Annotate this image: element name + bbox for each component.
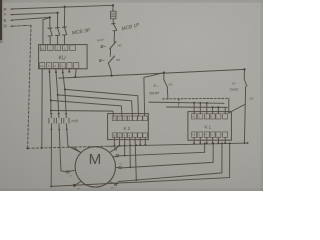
svg-text:A2: A2: [40, 64, 44, 68]
svg-text:B: B: [4, 18, 7, 23]
svg-text:R: R: [4, 7, 7, 12]
svg-text:N: N: [4, 24, 7, 29]
svg-text:K 2: K 2: [124, 126, 131, 131]
svg-text:A1: A1: [41, 46, 45, 50]
svg-text:KU: KU: [59, 56, 66, 62]
svg-text:TOR.: TOR.: [71, 119, 80, 124]
svg-text:E–: E–: [99, 58, 105, 63]
svg-text:M: M: [89, 151, 102, 168]
svg-text:E–: E–: [233, 82, 237, 86]
svg-text:E–: E–: [101, 44, 107, 49]
svg-text:Y: Y: [4, 12, 7, 17]
svg-text:K 1: K 1: [205, 125, 212, 130]
